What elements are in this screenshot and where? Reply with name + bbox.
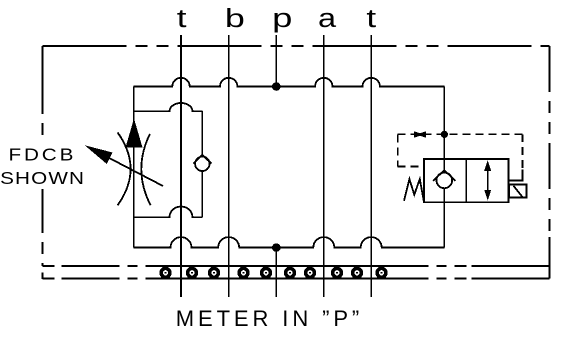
wire: vertical line p (upper stub) (275, 35, 277, 87)
port label b (225, 4, 245, 33)
port circle 5 (262, 268, 271, 277)
svg-text:b: b (225, 4, 245, 33)
pilot actuator box with diagonal (509, 185, 527, 198)
port label t (1st) (177, 3, 187, 32)
port circle 9 (353, 268, 362, 277)
band solid right segments (472, 265, 550, 267)
wire: FDC bypass sub-rect top edge with hop (134, 103, 203, 111)
wire: vertical line a (323, 35, 325, 297)
port label p (272, 3, 292, 33)
wire: outer right edge (549, 46, 551, 266)
flow direction arrow (up) on FDC path (126, 119, 143, 148)
port circle 2 (188, 268, 197, 277)
port label t (2nd) (366, 3, 376, 32)
wire: outer left edge (42, 46, 44, 266)
wire: sandwich block bottom edge with crossover hops (134, 237, 445, 248)
svg-text:METER IN ”P”: METER IN ”P” (176, 306, 363, 331)
port circle 7 (306, 268, 315, 277)
spring on valve V1 left side (404, 179, 424, 201)
pilot actuator connection L (509, 169, 523, 180)
wire: outer top edge (43, 45, 550, 47)
svg-text:a: a (318, 4, 337, 33)
wire: sandwich block left edge / FDC flow path (133, 87, 135, 248)
node: pilot tap junction (441, 131, 448, 138)
wire: vertical line p (lower stub) (275, 248, 277, 297)
svg-text:FDCB: FDCB (9, 145, 77, 165)
svg-text:SHOWN: SHOWN (0, 168, 85, 188)
valve V1 check valve (left compartment) (433, 159, 456, 202)
wire: vertical line t (1st) (180, 35, 182, 297)
valve V1 divider (465, 159, 467, 202)
label FDCB SHOWN (0, 141, 85, 189)
wire: sandwich block top edge with crossover hops (134, 78, 445, 87)
svg-text:t: t (177, 3, 187, 32)
mounting face band top line (43, 265, 550, 267)
pilot line (dashed envelope) (398, 134, 523, 168)
flow control valve FDC: variable orifice arcs (118, 132, 131, 205)
svg-text:p: p (272, 3, 292, 33)
port circle 1 (161, 268, 170, 277)
check valve C1 branch (right edge of sub-rect) (193, 111, 211, 217)
band right closure (549, 237, 551, 279)
port label a (318, 4, 337, 33)
band left stub (42, 272, 44, 279)
port circle 4 (239, 268, 248, 277)
pilot orifice (bowtie) (414, 131, 426, 138)
wire: vertical line b (228, 35, 230, 297)
wire: vertical line t (2nd) (370, 35, 372, 297)
band solid segment under port circles (bottom) (156, 278, 392, 280)
wire: FDC bypass sub-rect bottom edge with hop (134, 207, 203, 218)
node: P junction bottom (272, 243, 281, 252)
port circle 6 (286, 268, 295, 277)
outer manifold envelope (dashed rectangle) (43, 46, 550, 266)
band solid segment under port circles (top) (156, 265, 392, 267)
mounting face band bottom line (43, 278, 550, 280)
port circle 8 (333, 268, 342, 277)
port circle 10 (377, 268, 386, 277)
port circle 3 (210, 268, 219, 277)
node: P junction top (272, 82, 281, 91)
adjustability arrow through FDC (85, 145, 163, 186)
valve V1: 2-position body (424, 159, 509, 202)
valve V1 double-headed arrow (right compartment) (484, 160, 491, 200)
svg-text:t: t (366, 3, 376, 32)
wire: main vertical through valve (right edge of sandwich block) (443, 87, 445, 160)
